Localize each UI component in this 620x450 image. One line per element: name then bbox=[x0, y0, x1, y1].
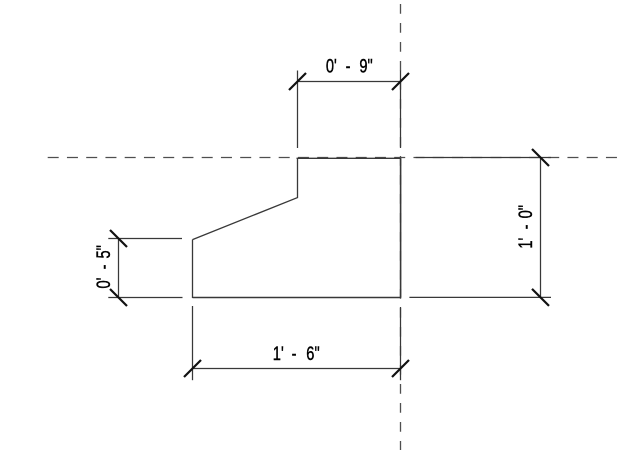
dimension 0'-5" left: dimension line bbox=[118, 238, 120, 298]
dimension 0'-9" top: witness line right bbox=[400, 71, 402, 149]
profile outline: right edge bbox=[400, 158, 402, 297]
svg-text:0': 0' bbox=[326, 55, 337, 78]
dimension 1'-6" bottom: witness line right bbox=[400, 307, 402, 380]
horizontal reference plane (dashed) bbox=[48, 157, 620, 159]
svg-text:6": 6" bbox=[306, 342, 319, 365]
svg-text:1': 1' bbox=[514, 238, 537, 249]
dimension 0'-9" top: value label bbox=[326, 55, 373, 78]
profile outline: sloped edge and upper-left edge bbox=[193, 158, 298, 239]
dimension 0'-5" left: top tick bbox=[110, 230, 127, 247]
dimension 1'-0" right: top tick bbox=[532, 149, 549, 166]
dimension 1'-6" bottom: witness line left bbox=[192, 306, 194, 380]
dimension 1'-0" right: witness line top bbox=[416, 157, 551, 159]
dimension 0'-5" left: value label (rotated) bbox=[92, 245, 115, 288]
dimension 1'-6" bottom: right tick bbox=[392, 360, 409, 377]
dimension 1'-0" right: value label (rotated) bbox=[514, 205, 537, 249]
svg-text:-: - bbox=[346, 55, 351, 78]
profile outline: left edge bbox=[192, 240, 194, 298]
svg-text:-: - bbox=[292, 342, 297, 365]
svg-text:1': 1' bbox=[273, 342, 284, 365]
dimension 0'-5" left: witness line top bbox=[108, 238, 182, 240]
dimension 1'-0" right: dimension line bbox=[540, 158, 542, 299]
svg-text:0': 0' bbox=[92, 278, 115, 289]
svg-text:-: - bbox=[514, 224, 537, 229]
vertical reference plane (dashed) bbox=[400, 4, 402, 450]
profile outline: top edge bbox=[297, 157, 401, 159]
dimension 1'-0" right: bottom tick bbox=[532, 289, 549, 306]
dimension 0'-9" top: right tick bbox=[392, 73, 409, 90]
svg-text:9": 9" bbox=[359, 55, 372, 78]
dimension 0'-9" top: dimension line bbox=[298, 81, 401, 83]
dimension 0'-5" left: witness line bottom bbox=[108, 297, 182, 299]
svg-text:0": 0" bbox=[514, 205, 537, 218]
dimension 0'-9" top: witness line left bbox=[297, 71, 299, 149]
dimension 1'-6" bottom: left tick bbox=[184, 360, 201, 377]
svg-text:5": 5" bbox=[92, 245, 115, 258]
dimension 0'-5" left: bottom tick bbox=[110, 289, 127, 306]
dimension 1'-6" bottom: value label bbox=[273, 342, 320, 365]
dimension 0'-9" top: left tick bbox=[289, 73, 306, 90]
profile outline: bottom edge bbox=[193, 297, 402, 299]
dimension 1'-6" bottom: dimension line bbox=[193, 368, 401, 370]
svg-text:-: - bbox=[92, 264, 115, 269]
dimension 1'-0" right: witness line bottom bbox=[409, 296, 551, 298]
